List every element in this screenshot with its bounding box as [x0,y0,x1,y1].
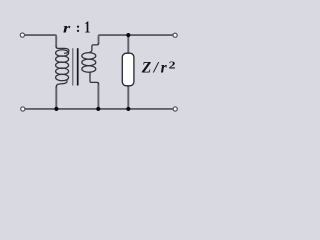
wire: impedance top lead [127,35,129,53]
port terminal top-right [173,33,177,37]
wire: right winding bottom lead [97,84,99,109]
svg-text::: : [76,21,81,36]
svg-text:r: r [63,20,71,36]
port terminal top-left [20,33,24,37]
junction dot bottom right winding [96,107,100,111]
junction dot bottom left winding [54,107,58,111]
port terminal bottom-right [173,107,177,111]
transformer secondary winding (right coil, 3 turns) [82,43,99,83]
port terminal bottom-left [21,107,25,111]
junction dot bottom impedance [126,107,130,111]
wire top-right: right winding lead to port 2 [99,35,174,43]
wire: left winding bottom lead [55,87,57,109]
transformer core [73,48,78,85]
wire bottom: common rail [25,108,173,110]
impedance Z/r^2 (european box) [122,53,134,86]
transformer primary winding (left coil, 5 turns) [56,47,69,87]
svg-text:Z/r: Z/r [141,59,170,76]
wire top-left: port 1 to left winding lead [25,35,57,47]
svg-text:1: 1 [84,19,90,37]
svg-text:2: 2 [169,59,176,71]
junction dot top (impedance tap) [126,33,130,37]
wire: impedance bottom lead [127,86,129,109]
